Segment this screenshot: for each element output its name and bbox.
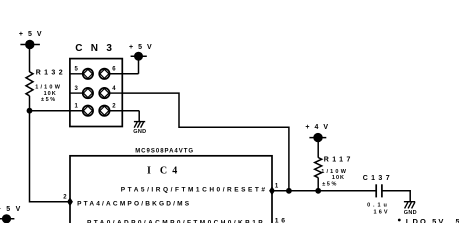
- svg-text:CN3: CN3: [75, 43, 120, 54]
- ground GND under CN3: [134, 122, 145, 128]
- svg-text:PTA0/ADP0/ACMP0/FTM0CH0/KB1P: PTA0/ADP0/ACMP0/FTM0CH0/KB1P: [87, 220, 265, 223]
- svg-text:R117: R117: [324, 157, 354, 164]
- svg-text:PTA4/ACMPO/BKGD/MS: PTA4/ACMPO/BKGD/MS: [77, 200, 191, 207]
- svg-text:1/10W: 1/10W: [321, 169, 348, 175]
- svg-text:LDO 5V: LDO 5V: [406, 217, 446, 223]
- wire C137 to ground: [382, 191, 410, 202]
- svg-text:±5%: ±5%: [322, 181, 338, 187]
- ground GND right: [404, 202, 415, 209]
- title LDO 5V (cut off at bottom): [398, 219, 401, 222]
- resistor R132: [26, 72, 33, 96]
- svg-text:C: C: [160, 166, 167, 177]
- resistor R117: [315, 158, 322, 178]
- svg-text:MC9S08PA4VTG: MC9S08PA4VTG: [135, 149, 194, 155]
- wire CN3 pin2 to ground: [138, 111, 140, 122]
- socket pin 4: [99, 88, 109, 98]
- power +4V: [309, 138, 326, 158]
- node junction pin4 wire / reset: [286, 188, 292, 194]
- svg-text:16: 16: [275, 218, 288, 224]
- svg-text:±5%: ±5%: [41, 97, 57, 103]
- svg-text:4: 4: [172, 166, 177, 177]
- svg-text:+5V: +5V: [129, 44, 157, 51]
- svg-text:1/10W: 1/10W: [35, 85, 62, 91]
- wire junction down to IC4 pin2: [30, 111, 69, 202]
- pin 2 marker: [67, 197, 73, 206]
- pin 6 stub to +5V: [109, 73, 138, 75]
- pin 4 stub: [109, 92, 122, 94]
- power +5V above CN3 pin6: [131, 56, 147, 74]
- wire junction to CN3 pin1: [30, 110, 84, 112]
- wire R117 bottom lead: [317, 178, 319, 191]
- pin 2 stub: [109, 110, 139, 112]
- socket pin 2: [99, 106, 109, 116]
- power +5V top-left: [20, 45, 40, 73]
- socket pin 5: [83, 69, 93, 79]
- svg-text:PTA5/IRQ/FTM1CH0/RESET#: PTA5/IRQ/FTM1CH0/RESET#: [121, 187, 268, 194]
- power +5V bottom-left: [0, 218, 14, 220]
- svg-text:GND: GND: [133, 129, 146, 135]
- pin 1 marker: [269, 186, 275, 195]
- svg-text:+5V: +5V: [19, 31, 47, 38]
- svg-text:5: 5: [456, 217, 459, 223]
- svg-text:+5V: +5V: [0, 206, 26, 213]
- wire CN3 pin4 to RESET net: [122, 93, 289, 191]
- svg-text:C137: C137: [363, 175, 393, 182]
- svg-text:GND: GND: [404, 210, 417, 216]
- svg-text:16V: 16V: [374, 210, 390, 216]
- pin 5 stub: [70, 73, 83, 75]
- svg-text:+4V: +4V: [305, 124, 333, 131]
- svg-text:R132: R132: [36, 70, 66, 77]
- svg-text:I: I: [147, 166, 151, 177]
- pin 3 stub: [70, 92, 83, 94]
- node junction R132 / CN3 pin1 / IC4 pin2: [27, 108, 33, 114]
- node junction R117 / reset: [315, 188, 321, 194]
- svg-text:10K: 10K: [332, 175, 345, 181]
- socket pin 3: [83, 88, 93, 98]
- socket pin 1: [83, 106, 93, 116]
- wire R132 bottom lead: [29, 96, 31, 111]
- pin 1 stub: [70, 110, 83, 112]
- wire RESET net horizontal: [272, 190, 376, 192]
- svg-text:0.1u: 0.1u: [367, 203, 390, 209]
- socket pin 6: [99, 69, 109, 79]
